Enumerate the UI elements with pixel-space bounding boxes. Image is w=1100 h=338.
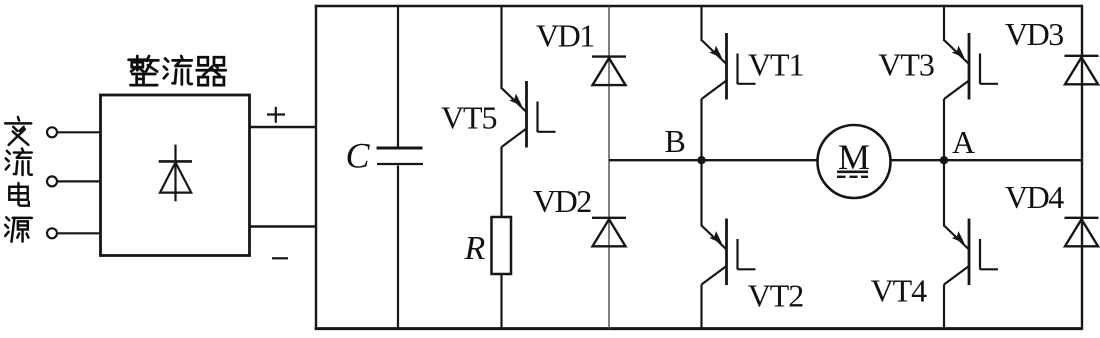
svg-text:VD2: VD2 [533,183,591,219]
svg-text:VT5: VT5 [441,99,497,135]
svg-text:VD4: VD4 [1005,179,1064,215]
svg-text:B: B [665,123,685,159]
svg-text:VT2: VT2 [748,278,804,314]
svg-text:C: C [346,135,371,175]
svg-text:VD1: VD1 [536,17,594,53]
svg-text:VT1: VT1 [748,47,804,83]
svg-text:VT4: VT4 [871,273,928,309]
svg-text:R: R [464,230,486,267]
svg-text:A: A [952,124,975,160]
svg-text:VD3: VD3 [1005,16,1063,52]
svg-text:VT3: VT3 [878,47,934,83]
